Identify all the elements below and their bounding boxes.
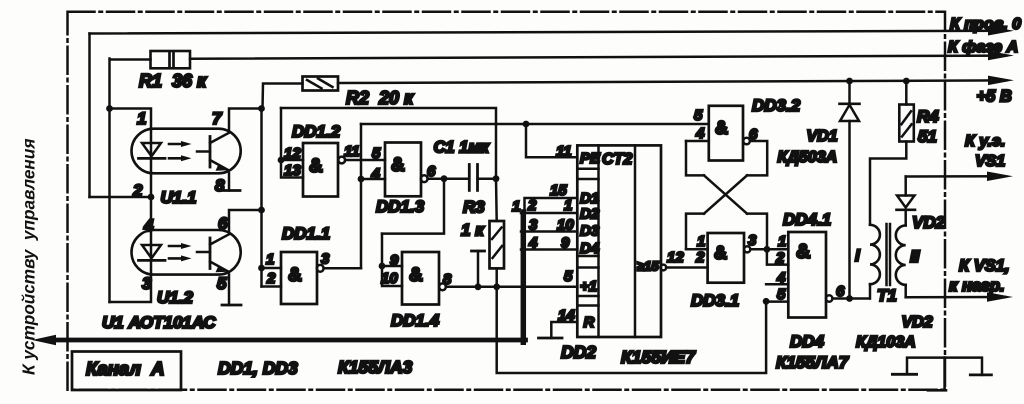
svg-text:1: 1 bbox=[137, 109, 146, 128]
svg-text:1: 1 bbox=[512, 198, 520, 215]
thick group-bus line to control device (left arrow) bbox=[32, 335, 526, 345]
svg-text:6: 6 bbox=[836, 283, 845, 300]
svg-text:Канал А: Канал А bbox=[86, 358, 165, 379]
wire: К VS1, к нагр. output arrow bbox=[906, 292, 1013, 302]
svg-text:12: 12 bbox=[667, 249, 684, 266]
transformer T1 winding I bbox=[870, 225, 880, 299]
svg-text:R1 36 к: R1 36 к bbox=[139, 71, 207, 91]
svg-text:3: 3 bbox=[529, 217, 538, 234]
RS latch cross coupling DD3.2/DD3.1 bbox=[686, 141, 767, 249]
svg-text:U1.2: U1.2 bbox=[157, 288, 193, 307]
wire: К у.э. VS1 output arrow bbox=[906, 172, 1013, 182]
svg-text:13: 13 bbox=[284, 162, 301, 179]
svg-text:4: 4 bbox=[695, 125, 705, 142]
svg-text:10: 10 bbox=[381, 270, 398, 287]
svg-text:К фазе А: К фазе А bbox=[948, 39, 1018, 56]
transformer T1 core bbox=[887, 224, 891, 285]
svg-text:51: 51 bbox=[918, 127, 937, 146]
svg-text:D3: D3 bbox=[580, 223, 600, 240]
svg-text:DD4.1: DD4.1 bbox=[783, 210, 831, 229]
svg-text:U1 АОТ101АС: U1 АОТ101АС bbox=[102, 313, 216, 332]
svg-text:DD3.1: DD3.1 bbox=[691, 291, 739, 310]
svg-text:DD3.2: DD3.2 bbox=[752, 96, 801, 115]
svg-text:7: 7 bbox=[212, 109, 223, 128]
svg-text:1: 1 bbox=[697, 233, 705, 250]
svg-text:PE: PE bbox=[580, 150, 601, 167]
svg-text:I: I bbox=[855, 246, 861, 265]
ground: U1.2 pin 5 emitter common bbox=[222, 275, 241, 305]
wire: U1.2 pin 6 collector to node bbox=[229, 210, 262, 234]
svg-text:3: 3 bbox=[321, 251, 330, 268]
svg-text:&: & bbox=[715, 118, 728, 138]
svg-text:DD1.3: DD1.3 bbox=[376, 197, 425, 216]
svg-text:+5 В: +5 В bbox=[977, 88, 1012, 106]
svg-text:&: & bbox=[288, 265, 302, 286]
svg-text:2: 2 bbox=[695, 249, 705, 266]
svg-text:4: 4 bbox=[143, 216, 154, 235]
svg-text:11: 11 bbox=[556, 143, 572, 160]
svg-text:11: 11 bbox=[344, 143, 360, 160]
svg-text:&: & bbox=[714, 243, 727, 263]
transformer T1 winding II bbox=[896, 225, 906, 297]
svg-text:8: 8 bbox=[215, 176, 225, 195]
gate DD1.2 (К155ЛА3) bbox=[278, 108, 385, 197]
svg-text:&: & bbox=[409, 265, 423, 286]
svg-text:к нагр.: к нагр. bbox=[949, 277, 1005, 295]
svg-text:К VS1,: К VS1, bbox=[959, 257, 1010, 275]
svg-text:4: 4 bbox=[371, 166, 381, 183]
wire/node: DD1.1 out to DD1.3 pin4 and DD2 PE bbox=[358, 121, 708, 269]
gate DD3.1 (К155ЛА3 latch) bbox=[686, 233, 788, 283]
gate DD3.2 (К155ЛА3 latch) bbox=[686, 106, 750, 161]
optocoupler U1.2 bbox=[132, 230, 241, 275]
svg-text:D1: D1 bbox=[580, 190, 599, 207]
diode VD2 КД103А bbox=[897, 177, 916, 226]
svg-text:2: 2 bbox=[775, 250, 785, 267]
svg-text:5: 5 bbox=[564, 268, 573, 285]
wire: neutral to U1.1 pin2 / U1.2 pin4 junction bbox=[90, 173, 155, 230]
resistor R4 51 bbox=[870, 78, 914, 225]
ground: U1.1 pin 8 emitter common bbox=[219, 173, 241, 190]
svg-text:DD1, DD3: DD1, DD3 bbox=[218, 358, 298, 378]
svg-text:II: II bbox=[910, 247, 921, 266]
optocoupler U1.1 bbox=[132, 129, 241, 174]
svg-text:КД103А: КД103А bbox=[856, 334, 916, 351]
gate DD1.4 (К155ЛА3) bbox=[379, 179, 578, 305]
svg-text:R: R bbox=[584, 314, 595, 331]
svg-text:DD4: DD4 bbox=[790, 332, 825, 351]
svg-text:4: 4 bbox=[776, 270, 786, 287]
svg-text:12: 12 bbox=[284, 145, 301, 162]
svg-text:КД503А: КД503А bbox=[778, 149, 838, 166]
svg-text:VS1: VS1 bbox=[975, 153, 1005, 170]
svg-text:6: 6 bbox=[427, 163, 436, 180]
gate DD1.1 (К155ЛА3) bbox=[262, 252, 362, 304]
svg-text:DD2: DD2 bbox=[561, 342, 596, 362]
resistor R3 1k bbox=[490, 179, 505, 290]
ground: transformer secondary common (internal) bbox=[892, 358, 991, 375]
wire: +5 В rail bbox=[263, 76, 1015, 109]
svg-text:U1.1: U1.1 bbox=[161, 188, 197, 207]
svg-text:CT2: CT2 bbox=[602, 151, 632, 168]
gate DD4.1 К155ЛА7 bbox=[763, 232, 870, 318]
Канал А designation box bbox=[72, 352, 181, 391]
svg-text:R3: R3 bbox=[463, 198, 485, 217]
counter DD2 К155ИЕ7 (CT2) bbox=[577, 145, 661, 337]
diode VD1 КД503А bbox=[840, 78, 860, 299]
svg-text:9: 9 bbox=[561, 235, 570, 252]
svg-text:VD1: VD1 bbox=[807, 128, 838, 145]
svg-text:1: 1 bbox=[266, 251, 274, 268]
svg-text:5: 5 bbox=[217, 274, 227, 293]
svg-text:К у.э.: К у.э. bbox=[965, 133, 1005, 150]
ground: stub on +1 line bbox=[472, 251, 485, 290]
svg-text:T1: T1 bbox=[877, 286, 897, 305]
wire: feedback line DD1.2 inputs to C1/R3 node bbox=[281, 108, 496, 175]
svg-text:К155ЛА7: К155ЛА7 bbox=[776, 353, 850, 372]
svg-text:К155ЛА3: К155ЛА3 bbox=[338, 357, 413, 377]
svg-text:2: 2 bbox=[527, 197, 537, 214]
svg-text:10: 10 bbox=[557, 217, 574, 234]
svg-text:D4: D4 bbox=[580, 240, 600, 257]
wire: U1.1 pin 7 collector to node bbox=[229, 109, 262, 133]
node: optocoupler collector node (R2 junction vertical) bbox=[258, 105, 265, 286]
svg-text:5: 5 bbox=[694, 107, 703, 124]
wire: +1 node to DD4.1 pins 4,5 (bottom run) bbox=[497, 287, 766, 373]
svg-text:R4: R4 bbox=[917, 107, 939, 126]
svg-text:5: 5 bbox=[372, 145, 381, 162]
svg-text:К155ИЕ7: К155ИЕ7 bbox=[621, 347, 696, 367]
wire: К фазе А line through R1 bbox=[110, 51, 1015, 302]
svg-text:К пров. 0: К пров. 0 bbox=[950, 16, 1021, 33]
svg-text:DD1.2: DD1.2 bbox=[292, 122, 341, 141]
svg-text:&: & bbox=[796, 241, 810, 263]
resistor R1 36k bbox=[151, 51, 191, 68]
svg-text:С1 1мк: С1 1мк bbox=[434, 139, 491, 157]
svg-text:VD2: VD2 bbox=[902, 314, 933, 331]
svg-text:6: 6 bbox=[218, 214, 228, 233]
capacitor C1 1мк bbox=[469, 165, 499, 191]
svg-text:&: & bbox=[309, 156, 323, 177]
resistor R2 20k (pull-up from +5V) bbox=[303, 77, 339, 91]
svg-text:8: 8 bbox=[443, 271, 452, 288]
svg-text:К устройству управления: К устройству управления bbox=[19, 139, 39, 375]
svg-text:1 к: 1 к bbox=[461, 221, 485, 240]
svg-text:&: & bbox=[391, 155, 405, 176]
svg-text:1: 1 bbox=[778, 233, 786, 250]
output >=15 pin 12 to DD3.1 pin 2 bbox=[660, 265, 707, 271]
svg-text:+1: +1 bbox=[580, 278, 597, 295]
wire: phase node to U1.1 pin 1 bbox=[106, 105, 151, 129]
gate DD1.3 (К155ЛА3) bbox=[361, 143, 469, 197]
svg-text:1: 1 bbox=[564, 197, 572, 214]
wire: phase line down to U1.2 pin 3 bbox=[110, 275, 152, 302]
svg-text:VD2: VD2 bbox=[912, 213, 946, 232]
svg-text:≥15: ≥15 bbox=[637, 259, 659, 274]
svg-text:9: 9 bbox=[390, 252, 399, 269]
svg-text:D2: D2 bbox=[580, 206, 600, 223]
svg-text:5: 5 bbox=[777, 286, 786, 303]
data input rows D1-D4 with group bus bbox=[521, 198, 577, 342]
svg-text:3: 3 bbox=[748, 232, 757, 249]
svg-text:DD1.4: DD1.4 bbox=[391, 311, 440, 330]
wire: К пров. 0 line (neutral bus) bbox=[90, 26, 1015, 197]
svg-text:4: 4 bbox=[528, 235, 538, 252]
svg-text:R2 20 к: R2 20 к bbox=[346, 88, 414, 108]
svg-text:2: 2 bbox=[266, 270, 276, 287]
ground: R input pin 14 bbox=[539, 322, 578, 338]
svg-text:DD1.1: DD1.1 bbox=[282, 224, 330, 243]
